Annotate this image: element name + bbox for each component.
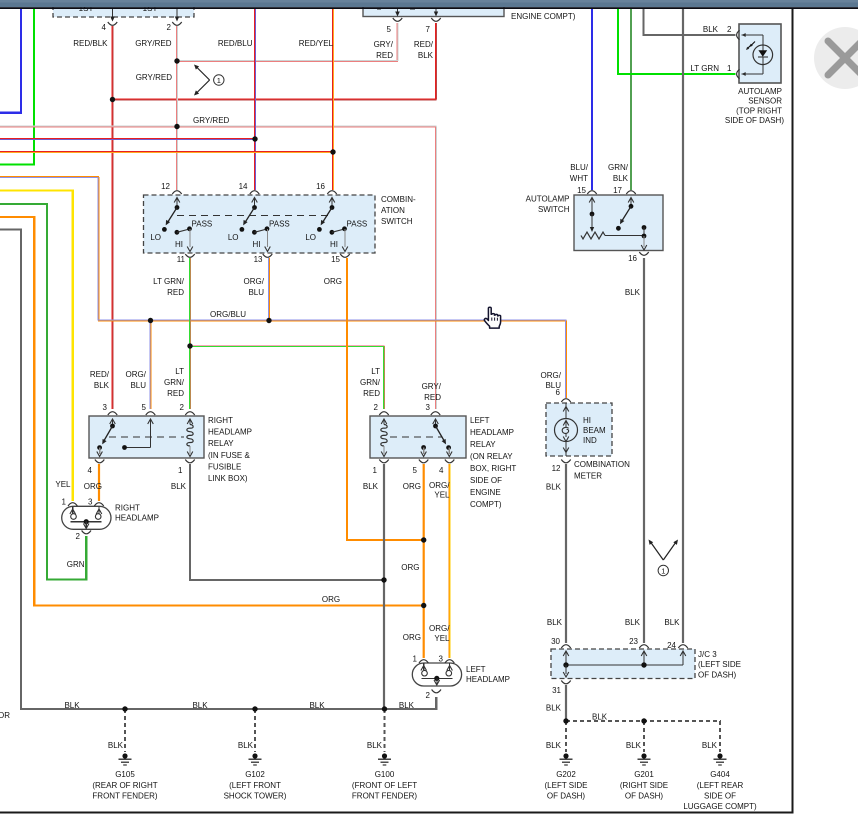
svg-text:PASS: PASS xyxy=(347,220,368,229)
svg-text:2: 2 xyxy=(374,403,379,412)
svg-text:(FRONT OF LEFT: (FRONT OF LEFT xyxy=(352,781,417,790)
svg-text:15: 15 xyxy=(577,186,586,195)
wire GRN/BLK to autolamp switch pin17 xyxy=(630,8,632,190)
svg-text:LEFT: LEFT xyxy=(470,416,490,425)
right headlamp relay pin 4 xyxy=(97,445,102,450)
ground G201 xyxy=(641,753,646,758)
svg-text:BLK: BLK xyxy=(363,482,379,491)
svg-text:1: 1 xyxy=(178,466,183,475)
wire BLK dashed stub to G105 xyxy=(124,709,126,752)
svg-text:16: 16 xyxy=(316,182,325,191)
svg-text:FRONT FENDER): FRONT FENDER) xyxy=(352,792,418,801)
junction dot LT GRN/RED xyxy=(187,343,192,348)
svg-text:HI: HI xyxy=(583,416,591,425)
svg-text:(IN FUSE &: (IN FUSE & xyxy=(208,451,250,460)
wire LT GRN to autolamp sensor pin1 xyxy=(618,8,736,74)
svg-text:BLK: BLK xyxy=(625,288,641,297)
left headlamp pin 3 xyxy=(445,660,454,663)
svg-text:HEADLAMP: HEADLAMP xyxy=(466,675,510,684)
wire BLK from left edge down to ground bus xyxy=(0,230,21,710)
svg-text:YEL: YEL xyxy=(55,480,71,489)
svg-text:YEL: YEL xyxy=(434,634,450,643)
svg-text:BLK: BLK xyxy=(664,618,680,627)
combination switch pole 12/11 xyxy=(172,191,181,194)
wire GRY/RED branch from pin5 xyxy=(396,23,398,61)
svg-text:1: 1 xyxy=(62,498,67,507)
ground G102 xyxy=(252,753,257,758)
svg-text:COMBINATION: COMBINATION xyxy=(574,460,630,469)
svg-text:HI: HI xyxy=(175,240,183,249)
svg-text:3: 3 xyxy=(103,403,108,412)
svg-text:2: 2 xyxy=(727,25,732,34)
diagram page bottom border xyxy=(0,812,794,814)
right headlamp pin 3 xyxy=(94,503,103,506)
wire LT GRN/RED from combination switch pin11 to right headlamp relay pin2 xyxy=(188,258,190,409)
svg-text:BLK: BLK xyxy=(171,482,187,491)
svg-text:G105: G105 xyxy=(115,770,135,779)
svg-text:BOX, RIGHT: BOX, RIGHT xyxy=(470,464,516,473)
svg-text:2: 2 xyxy=(76,532,81,541)
wire BLK to autolamp sensor pin2 xyxy=(644,8,736,35)
combination switch pole 16/15 xyxy=(327,191,336,194)
svg-text:SENSOR: SENSOR xyxy=(748,97,782,106)
svg-text:2: 2 xyxy=(180,403,185,412)
svg-text:5: 5 xyxy=(387,25,392,34)
svg-text:SWITCH: SWITCH xyxy=(381,217,413,226)
svg-text:BLK: BLK xyxy=(703,25,719,34)
svg-text:13: 13 xyxy=(254,255,263,264)
svg-text:15: 15 xyxy=(331,255,340,264)
svg-text:BLK: BLK xyxy=(64,701,80,710)
svg-text:RED/BLU: RED/BLU xyxy=(218,39,253,48)
svg-text:24: 24 xyxy=(667,641,676,650)
junction dot RED/BLU xyxy=(252,136,257,141)
wire GRN from left edge to right headlamp pin2 xyxy=(0,204,86,580)
svg-text:11: 11 xyxy=(177,255,186,264)
svg-text:1: 1 xyxy=(661,567,665,576)
svg-text:BLK: BLK xyxy=(702,741,718,750)
svg-text:GRY/: GRY/ xyxy=(422,382,442,391)
wire BLU/WHT to autolamp switch pin15 xyxy=(591,8,593,190)
svg-text:RED: RED xyxy=(376,51,393,60)
svg-text:BLK: BLK xyxy=(592,713,608,722)
mouse cursor xyxy=(484,307,500,328)
autolamp sensor box xyxy=(739,24,781,83)
right headlamp relay box xyxy=(89,416,204,458)
svg-text:BLK: BLK xyxy=(418,51,434,60)
combination switch pole 14/13 xyxy=(250,191,259,194)
svg-text:ORG: ORG xyxy=(324,277,342,286)
svg-text:RED/: RED/ xyxy=(414,40,434,49)
svg-text:(LEFT FRONT: (LEFT FRONT xyxy=(229,781,281,790)
junction dot BLK ground right xyxy=(641,718,646,723)
svg-text:1: 1 xyxy=(727,64,732,73)
left headlamp relay pin 3 switch xyxy=(431,412,440,415)
svg-text:1: 1 xyxy=(373,466,378,475)
svg-text:6: 6 xyxy=(556,388,561,397)
svg-text:GRN/: GRN/ xyxy=(608,163,629,172)
wire BLK left headlamp relay pin1 to ground bus xyxy=(383,464,385,709)
svg-text:FUSIBLE: FUSIBLE xyxy=(208,462,241,471)
svg-text:BLK: BLK xyxy=(238,741,254,750)
svg-text:30: 30 xyxy=(551,637,560,646)
wire RED/YEL horizontal from left edge xyxy=(0,150,334,152)
svg-text:ATION: ATION xyxy=(381,206,405,215)
svg-text:3: 3 xyxy=(88,498,93,507)
svg-text:2: 2 xyxy=(426,691,431,700)
svg-text:BLK: BLK xyxy=(94,381,110,390)
splice marker 1 near BLK columns xyxy=(651,542,664,560)
svg-text:RIGHT: RIGHT xyxy=(115,504,140,513)
J/C 3 pin 31 xyxy=(565,665,567,674)
svg-text:ORG: ORG xyxy=(322,595,340,604)
svg-text:G102: G102 xyxy=(245,770,265,779)
wire ORG right headlamp relay pin4 to right headlamp pin3 xyxy=(98,464,100,501)
wire GRY/RED pin2 vertical to combination switch pin12 xyxy=(175,26,177,190)
svg-text:(LEFT SIDE: (LEFT SIDE xyxy=(545,781,588,790)
svg-text:(LEFT REAR: (LEFT REAR xyxy=(697,781,744,790)
engine connector clipped text marks xyxy=(377,8,381,10)
wire BLK autolamp switch pin16 to J/C 3 pin23 xyxy=(643,258,645,643)
wire RED/BLK branch from pin7 xyxy=(434,23,436,100)
wire ORG/BLU main horizontal run to HI BEAM IND pin6 xyxy=(98,319,567,321)
svg-text:BLK: BLK xyxy=(108,741,124,750)
svg-text:SIDE OF: SIDE OF xyxy=(704,792,736,801)
svg-text:BLK: BLK xyxy=(625,618,641,627)
svg-text:COMBIN-: COMBIN- xyxy=(381,195,416,204)
svg-text:SWITCH: SWITCH xyxy=(538,205,570,214)
combination switch box xyxy=(144,195,376,253)
wire ORG from combination switch pin15 xyxy=(347,258,424,540)
ground G404 xyxy=(717,753,722,758)
wire BLK HI BEAM IND pin12 to J/C 3 pin30 xyxy=(565,464,567,643)
autolamp sensor photodiode xyxy=(762,35,764,45)
svg-text:BLK: BLK xyxy=(309,701,325,710)
svg-text:(TOP RIGHT: (TOP RIGHT xyxy=(736,106,782,115)
J/C 3 internal bus xyxy=(566,664,683,666)
svg-text:(REAR OF RIGHT: (REAR OF RIGHT xyxy=(92,781,157,790)
svg-text:LT: LT xyxy=(371,367,380,376)
svg-text:BLK: BLK xyxy=(547,618,563,627)
svg-text:RED/YEL: RED/YEL xyxy=(299,39,334,48)
svg-text:RED: RED xyxy=(424,393,441,402)
wire LT GRN/RED branch to left headlamp relay pin2 xyxy=(190,344,385,346)
right headlamp bulb xyxy=(62,506,111,529)
svg-text:BLU: BLU xyxy=(130,381,146,390)
svg-text:(RIGHT SIDE: (RIGHT SIDE xyxy=(620,781,668,790)
svg-text:5: 5 xyxy=(142,403,147,412)
svg-text:BEAM: BEAM xyxy=(583,426,606,435)
svg-text:BLK: BLK xyxy=(399,701,415,710)
junction connector J/C 3 box xyxy=(551,649,695,679)
svg-text:FRONT FENDER): FRONT FENDER) xyxy=(92,792,158,801)
svg-text:GRN: GRN xyxy=(67,560,85,569)
svg-text:LINK BOX): LINK BOX) xyxy=(208,474,248,483)
svg-text:BLK: BLK xyxy=(546,741,562,750)
svg-text:ORG/: ORG/ xyxy=(126,370,147,379)
J/C 3 pin 24 xyxy=(678,645,687,648)
svg-text:SIDE OF: SIDE OF xyxy=(470,476,502,485)
HI BEAM IND pin 12 / combination meter label xyxy=(561,460,570,463)
svg-text:HI: HI xyxy=(253,240,261,249)
wire BLK dashed stub to G102 xyxy=(254,709,256,752)
svg-text:BLK: BLK xyxy=(546,483,562,492)
wire BLK right headlamp relay pin1 xyxy=(190,464,384,580)
left headlamp filaments xyxy=(423,663,425,670)
autolamp switch box xyxy=(574,195,663,251)
connector 1ST pin 4 xyxy=(112,8,114,18)
right headlamp filaments xyxy=(72,506,74,513)
left headlamp bulb xyxy=(412,663,461,686)
svg-text:PASS: PASS xyxy=(269,220,290,229)
wire BLK right column to J/C 3 pin24 xyxy=(682,8,684,643)
J/C 3 pin 30 xyxy=(561,645,570,648)
right headlamp relay pin 3 switch xyxy=(108,412,117,415)
svg-text:BLK: BLK xyxy=(192,701,208,710)
svg-text:RIGHT: RIGHT xyxy=(208,416,233,425)
svg-text:ORG: ORG xyxy=(84,482,102,491)
svg-text:LT: LT xyxy=(175,367,184,376)
J/C 3 pin 23 xyxy=(639,645,648,648)
wire BLK J/C 3 pin31 down to ground junction xyxy=(565,685,567,721)
HI BEAM IND pin 6 xyxy=(561,399,570,402)
svg-text:3: 3 xyxy=(439,655,444,664)
svg-text:PASS: PASS xyxy=(192,220,213,229)
wire YEL from left edge to right headlamp pin1 xyxy=(0,191,73,502)
junction dot bus G100 xyxy=(382,706,387,711)
svg-text:7: 7 xyxy=(426,25,431,34)
svg-text:ORG/: ORG/ xyxy=(541,371,562,380)
wire ORG/YEL left headlamp relay pin4 to left headlamp pin3 xyxy=(448,464,450,658)
HI BEAM IND lamp xyxy=(565,403,567,419)
svg-text:SHOCK TOWER): SHOCK TOWER) xyxy=(224,792,287,801)
svg-text:HEADLAMP: HEADLAMP xyxy=(470,428,514,437)
junction dot BLK xyxy=(381,577,386,582)
left headlamp relay pin 5 contact xyxy=(421,445,426,450)
left headlamp relay box xyxy=(370,416,466,458)
svg-text:RED/BLK: RED/BLK xyxy=(73,39,108,48)
svg-text:G404: G404 xyxy=(710,770,730,779)
junction dot GRY/RED lower xyxy=(174,124,179,129)
svg-text:WHT: WHT xyxy=(570,174,588,183)
wire RED/YEL vertical to combination switch pin16 xyxy=(331,8,333,190)
svg-text:OF DASH): OF DASH) xyxy=(625,792,664,801)
svg-text:ENGINE COMPT): ENGINE COMPT) xyxy=(511,12,576,21)
left headlamp pin 2 xyxy=(432,690,441,693)
left headlamp relay dashed actuator link xyxy=(390,436,442,438)
svg-text:GRY/: GRY/ xyxy=(374,40,394,49)
svg-text:23: 23 xyxy=(629,637,638,646)
junction dot ORG/BLU left xyxy=(148,318,153,323)
svg-text:BLK: BLK xyxy=(626,741,642,750)
splice marker 1 near GRY/RED xyxy=(197,67,210,80)
svg-text:J/C 3: J/C 3 xyxy=(698,650,717,659)
svg-text:1: 1 xyxy=(217,76,221,85)
svg-text:4: 4 xyxy=(88,466,93,475)
svg-text:12: 12 xyxy=(552,464,561,473)
wire LT GRN (top left, to off-screen left) xyxy=(0,8,34,165)
window top bar xyxy=(0,0,858,7)
svg-text:2: 2 xyxy=(167,23,172,32)
junction dot ORG lower xyxy=(421,603,426,608)
diagram page right border xyxy=(792,8,794,813)
svg-text:IND: IND xyxy=(583,436,597,445)
svg-text:LT GRN: LT GRN xyxy=(690,64,719,73)
svg-text:GRN/: GRN/ xyxy=(360,378,381,387)
svg-text:(ON RELAY: (ON RELAY xyxy=(470,452,513,461)
svg-text:YEL: YEL xyxy=(434,491,450,500)
svg-text:G201: G201 xyxy=(634,770,654,779)
svg-text:ORG/: ORG/ xyxy=(244,277,265,286)
right headlamp relay coil pin 2 to pin 1 xyxy=(185,412,194,415)
svg-text:RED/: RED/ xyxy=(90,370,110,379)
svg-text:HEADLAMP: HEADLAMP xyxy=(115,514,159,523)
ground G202 xyxy=(563,753,568,758)
connector 1ST pin 2 xyxy=(176,8,178,18)
svg-text:ORG/BLU: ORG/BLU xyxy=(210,310,246,319)
wire ORG/BLU stub from combination switch pin13 xyxy=(267,258,269,321)
svg-text:LEFT: LEFT xyxy=(466,665,486,674)
wire ORG/BLU stub to right headlamp relay pin5 xyxy=(149,321,151,410)
svg-text:METER: METER xyxy=(574,472,602,481)
wire ORG/BLU from left edge down to main horizontal run xyxy=(0,175,99,177)
svg-text:LO: LO xyxy=(305,233,316,242)
junction dot GRY/RED upper xyxy=(174,58,179,63)
svg-text:GRY/RED: GRY/RED xyxy=(135,39,172,48)
svg-text:3: 3 xyxy=(426,403,431,412)
right headlamp pin 1 xyxy=(68,503,77,506)
svg-text:RELAY: RELAY xyxy=(208,439,234,448)
svg-text:LT GRN/: LT GRN/ xyxy=(153,277,185,286)
svg-text:G202: G202 xyxy=(556,770,576,779)
svg-text:LO: LO xyxy=(150,233,161,242)
svg-text:31: 31 xyxy=(552,686,561,695)
wire ORG from left edge along bottom to left headlamp feed xyxy=(0,217,424,606)
autolamp sensor pin 2 xyxy=(737,30,740,39)
wire GRY/RED horizontal from left edge to left headlamp relay pin3 xyxy=(0,125,437,127)
wire BLU (top left, to off-screen left) xyxy=(0,8,21,113)
svg-text:SIDE OF DASH): SIDE OF DASH) xyxy=(725,116,784,125)
connector 1ST box (top left, cut off) xyxy=(53,2,194,17)
right headlamp pin 2 xyxy=(82,531,91,534)
engine connector pin 5 xyxy=(397,8,399,13)
svg-text:LUGGAGE COMPT): LUGGAGE COMPT) xyxy=(683,802,757,811)
svg-text:16: 16 xyxy=(628,254,637,263)
ground G105 xyxy=(122,753,127,758)
engine compartment connector box (top, cut off) xyxy=(363,2,504,17)
combination switch mechanical link (dashed) xyxy=(177,215,332,217)
junction dot ORG upper xyxy=(421,537,426,542)
svg-text:AUTOLAMP: AUTOLAMP xyxy=(526,195,570,204)
wire RED/BLU horizontal from left edge xyxy=(0,137,256,139)
junction dot ORG/BLU right xyxy=(266,318,271,323)
svg-text:RED: RED xyxy=(167,288,184,297)
svg-text:BLK: BLK xyxy=(613,174,629,183)
svg-text:RED: RED xyxy=(167,389,184,398)
svg-text:5: 5 xyxy=(413,466,418,475)
svg-text:HI: HI xyxy=(330,240,338,249)
wire ORG left headlamp relay pin5 down to left headlamp pin1 xyxy=(423,464,425,658)
svg-text:14: 14 xyxy=(239,182,248,191)
left headlamp pin 1 xyxy=(419,660,428,663)
svg-text:4: 4 xyxy=(439,466,444,475)
svg-text:GRY/RED: GRY/RED xyxy=(193,116,230,125)
svg-text:BLK: BLK xyxy=(367,741,383,750)
svg-text:HEADLAMP: HEADLAMP xyxy=(208,428,252,437)
svg-text:ORG/: ORG/ xyxy=(429,624,450,633)
left headlamp relay pin 4 xyxy=(446,445,451,450)
svg-text:ENGINE: ENGINE xyxy=(470,488,501,497)
svg-text:LO: LO xyxy=(228,233,239,242)
svg-text:COMPT): COMPT) xyxy=(470,500,502,509)
svg-text:BLU/: BLU/ xyxy=(570,163,589,172)
wire RED/BLU vertical to combination switch pin14 xyxy=(253,8,255,190)
svg-text:12: 12 xyxy=(161,182,170,191)
autolamp sensor pin 1 xyxy=(737,69,740,78)
svg-text:1: 1 xyxy=(413,655,418,664)
ground G100 xyxy=(382,753,387,758)
close button xyxy=(814,27,858,89)
svg-text:ORG: ORG xyxy=(401,563,419,572)
svg-text:(LEFT SIDE: (LEFT SIDE xyxy=(698,660,741,669)
junction dot bus G102 xyxy=(252,706,257,711)
engine connector pin 7 xyxy=(435,8,437,13)
autolamp switch pin 17 lever xyxy=(626,191,635,194)
svg-text:OF DASH): OF DASH) xyxy=(698,671,737,680)
svg-text:RELAY: RELAY xyxy=(470,440,496,449)
svg-text:G100: G100 xyxy=(375,770,395,779)
svg-text:GRN/: GRN/ xyxy=(164,378,185,387)
svg-text:OR: OR xyxy=(0,711,10,720)
wire BLK dashed stub to G100 xyxy=(384,709,386,752)
svg-text:RED: RED xyxy=(363,389,380,398)
wire BLK ground bus to left headlamp pin2 xyxy=(20,697,436,709)
svg-text:17: 17 xyxy=(613,186,622,195)
svg-text:BLK: BLK xyxy=(546,704,562,713)
junction dot BLK ground left xyxy=(563,718,568,723)
svg-text:ORG: ORG xyxy=(403,482,421,491)
wire BLK dashed distribution to grounds G202 G201 G404 xyxy=(566,720,721,722)
autolamp switch pin 16 xyxy=(642,225,647,230)
left headlamp relay coil pin 2 to pin 1 xyxy=(379,412,388,415)
svg-text:GRY/RED: GRY/RED xyxy=(136,73,173,82)
junction dot bus G105 xyxy=(122,706,127,711)
junction dot RED/YEL xyxy=(330,149,335,154)
right headlamp relay pin 5 contact xyxy=(146,412,155,415)
autolamp switch pin 15 and rheostat xyxy=(587,191,596,194)
junction dot RED/BLK xyxy=(110,97,115,102)
svg-text:OF DASH): OF DASH) xyxy=(547,792,586,801)
svg-text:BLU: BLU xyxy=(248,288,264,297)
wire RED/BLK pin4 vertical to right headlamp relay pin3 xyxy=(111,26,113,409)
svg-text:ORG: ORG xyxy=(403,633,421,642)
svg-text:ORG/: ORG/ xyxy=(429,481,450,490)
svg-text:4: 4 xyxy=(102,23,107,32)
svg-text:AUTOLAMP: AUTOLAMP xyxy=(738,87,782,96)
HI BEAM IND box xyxy=(546,403,612,456)
right headlamp relay dashed actuator link xyxy=(109,436,184,438)
